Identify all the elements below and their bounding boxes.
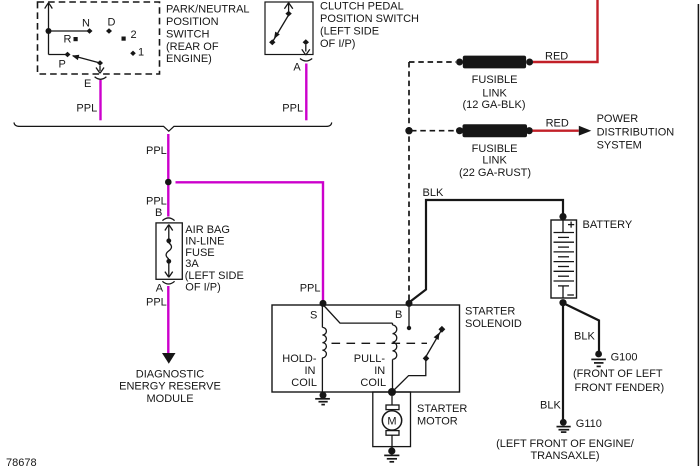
svg-text:POWER: POWER [597, 113, 639, 125]
svg-text:MOTOR: MOTOR [417, 416, 458, 428]
svg-text:(LEFT FRONT OF ENGINE/: (LEFT FRONT OF ENGINE/ [496, 438, 635, 450]
svg-text:78678: 78678 [6, 457, 37, 469]
svg-text:FUSIBLE: FUSIBLE [472, 143, 518, 155]
svg-text:N: N [82, 18, 90, 30]
svg-text:LINK: LINK [482, 155, 507, 167]
svg-text:D: D [108, 17, 116, 29]
svg-text:ENERGY RESERVE: ENERGY RESERVE [119, 381, 221, 393]
svg-text:IN: IN [374, 365, 385, 377]
svg-text:PPL: PPL [146, 145, 167, 157]
svg-text:S: S [310, 309, 317, 321]
svg-text:(22 GA-RUST): (22 GA-RUST) [459, 167, 531, 179]
svg-text:FRONT FENDER): FRONT FENDER) [575, 382, 665, 394]
svg-text:(FRONT OF LEFT: (FRONT OF LEFT [573, 368, 663, 380]
svg-text:COIL: COIL [360, 377, 386, 389]
svg-text:G100: G100 [611, 351, 638, 363]
svg-text:COIL: COIL [291, 377, 317, 389]
svg-text:R: R [64, 34, 72, 46]
svg-text:SWITCH: SWITCH [166, 28, 209, 40]
svg-text:BLK: BLK [574, 331, 595, 343]
svg-text:M: M [387, 415, 396, 427]
svg-text:(LEFT SIDE: (LEFT SIDE [320, 26, 379, 38]
svg-text:TRANSAXLE): TRANSAXLE) [530, 450, 599, 462]
svg-text:IN: IN [305, 365, 316, 377]
svg-text:PPL: PPL [76, 102, 97, 114]
svg-text:(12 GA-BLK): (12 GA-BLK) [463, 99, 526, 111]
svg-text:OF I/P): OF I/P) [320, 38, 355, 50]
svg-text:POSITION SWITCH: POSITION SWITCH [320, 13, 419, 25]
svg-text:A: A [293, 62, 301, 74]
svg-text:FUSIBLE: FUSIBLE [472, 74, 518, 86]
svg-text:PPL: PPL [300, 283, 321, 295]
svg-text:(REAR OF: (REAR OF [166, 41, 219, 53]
svg-text:RED: RED [546, 117, 569, 129]
svg-text:HOLD-: HOLD- [282, 353, 317, 365]
svg-text:PPL: PPL [282, 102, 303, 114]
svg-text:DISTRIBUTION: DISTRIBUTION [597, 127, 675, 139]
svg-text:A: A [156, 283, 164, 295]
svg-text:PULL-: PULL- [354, 353, 386, 365]
svg-text:BATTERY: BATTERY [583, 219, 633, 231]
svg-text:PPL: PPL [146, 195, 167, 207]
svg-text:SOLENOID: SOLENOID [465, 318, 522, 330]
svg-text:CLUTCH PEDAL: CLUTCH PEDAL [320, 1, 404, 13]
svg-text:B: B [155, 207, 162, 219]
svg-text:LINK: LINK [482, 88, 507, 100]
svg-text:PPL: PPL [146, 296, 167, 308]
svg-text:IN-LINE: IN-LINE [185, 235, 224, 247]
svg-text:STARTER: STARTER [465, 305, 515, 317]
svg-text:(LEFT SIDE: (LEFT SIDE [185, 270, 244, 282]
svg-text:2: 2 [131, 29, 137, 41]
svg-text:BLK: BLK [423, 187, 444, 199]
svg-text:B: B [395, 309, 402, 321]
svg-text:ENGINE): ENGINE) [166, 53, 212, 65]
svg-text:P: P [59, 59, 66, 71]
svg-text:PARK/NEUTRAL: PARK/NEUTRAL [166, 4, 250, 16]
svg-text:STARTER: STARTER [417, 403, 467, 415]
svg-text:SYSTEM: SYSTEM [597, 139, 642, 151]
svg-text:OF I/P): OF I/P) [185, 281, 220, 293]
svg-text:RED: RED [545, 51, 568, 63]
svg-text:DIAGNOSTIC: DIAGNOSTIC [136, 368, 205, 380]
svg-text:1: 1 [138, 47, 144, 59]
svg-text:3A: 3A [185, 258, 199, 270]
svg-text:MODULE: MODULE [146, 393, 193, 405]
svg-text:AIR BAG: AIR BAG [185, 224, 230, 236]
svg-text:E: E [84, 78, 91, 90]
svg-text:G110: G110 [576, 418, 602, 430]
svg-text:POSITION: POSITION [166, 16, 219, 28]
svg-text:FUSE: FUSE [185, 247, 214, 259]
svg-text:BLK: BLK [540, 399, 561, 411]
